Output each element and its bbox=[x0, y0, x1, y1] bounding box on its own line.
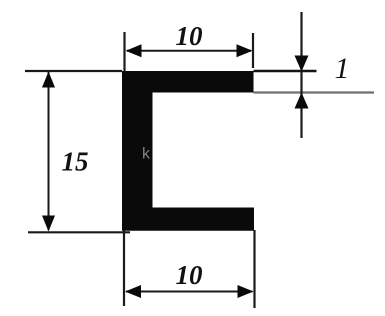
svg-text:10: 10 bbox=[176, 260, 204, 290]
arrow left of bottom dim bbox=[125, 285, 141, 298]
svg-text:k: k bbox=[142, 146, 151, 163]
extension line bottom-left (for dim 10 bottom) bbox=[123, 230, 125, 306]
svg-text:15: 15 bbox=[62, 147, 89, 177]
dimension line 15 bbox=[48, 72, 50, 230]
svg-text:1: 1 bbox=[335, 52, 350, 85]
thickness ref line top (for dim 1) bbox=[254, 70, 317, 73]
arrow up to flange bottom (dim 1) bbox=[295, 93, 309, 109]
extension line bottom-right (for dim 10 bottom) bbox=[253, 230, 255, 308]
arrow up of 15 dim bbox=[42, 72, 55, 88]
extension line left 15 top bbox=[25, 70, 122, 72]
arrow right of top dim bbox=[237, 44, 253, 57]
arrow right of bottom dim bbox=[238, 285, 254, 298]
dimension line 1 vertical bbox=[300, 12, 302, 138]
svg-text:10: 10 bbox=[176, 21, 204, 51]
arrow down to flange top (dim 1) bbox=[295, 56, 309, 72]
extension line top-right (for dim 10 top) bbox=[252, 33, 254, 68]
dimension line top 10 bbox=[127, 50, 251, 52]
dimension line bottom 10 bbox=[126, 291, 253, 293]
extension line left 15 bottom bbox=[28, 231, 130, 233]
thickness ref line bottom (for dim 1) bbox=[254, 91, 375, 93]
arrow down of 15 dim bbox=[42, 216, 55, 232]
channel profile (C-section) bbox=[122, 71, 254, 231]
extension line top-left (for dim 10 top) bbox=[123, 32, 125, 71]
arrow left of top dim bbox=[126, 44, 142, 57]
